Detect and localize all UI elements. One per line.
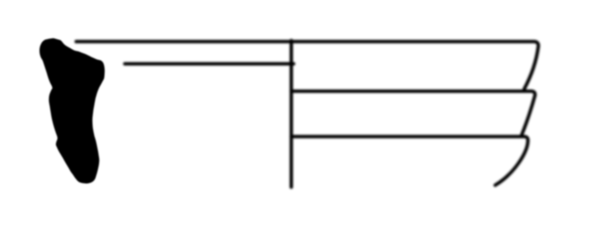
middle band line with curve xyxy=(291,91,535,134)
rim top line with right curve xyxy=(76,42,538,89)
sherd profile section xyxy=(40,38,105,183)
interior left line xyxy=(125,62,294,65)
lower band line with long curve xyxy=(291,137,528,186)
vertical axis line xyxy=(290,41,293,188)
